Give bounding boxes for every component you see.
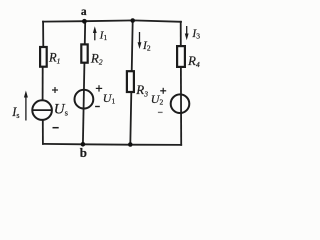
resistor R2 [81,44,87,62]
voltage source U1 minus sign [95,106,100,108]
current arrow I1 [93,26,97,40]
current arrow I3 [185,26,189,40]
wire top rail (node a rail) [43,20,181,21]
voltage source U2 plus sign [160,88,166,94]
wire branch1 middle lead [42,67,44,101]
resistor R1 [40,47,47,67]
current source Us bar [33,109,52,111]
resistor R3 [127,71,134,92]
current source Us plus sign [52,87,58,93]
node a dot [82,19,87,24]
node (branch3 bottom) junction dot [128,142,133,147]
node b dot [81,142,86,147]
current arrow I2 [138,32,142,49]
current arrow Is [24,91,28,121]
wire branch1 top lead [42,22,44,48]
svg-text:a: a [81,6,87,18]
voltage source U1 circle [75,90,94,109]
wire branch3 [130,21,132,145]
wire branch1 bottom lead [42,120,44,144]
node (branch3 top) junction dot [130,18,135,23]
voltage source U1 plus sign [96,85,102,91]
resistor R4 [177,46,185,67]
voltage source U2 minus sign [158,111,163,113]
current source Us minus sign [53,127,59,129]
current source Us circle [32,100,52,120]
wire branch2 (through U1) [83,21,85,144]
wire branch4 (through U2) [180,22,183,145]
svg-text:b: b [80,145,87,160]
voltage source U2 circle [171,94,190,113]
wire bottom rail (node b rail) [43,144,181,145]
